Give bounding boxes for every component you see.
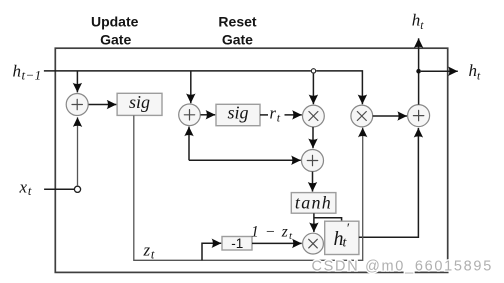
wire x_t up to U1 [77, 117, 79, 186]
wire h_{t-1} horizontal [44, 70, 311, 72]
wire sig2 to r_t [260, 114, 268, 116]
multiplier M3 (x) bottom [303, 233, 324, 254]
svg-text:Gate: Gate [222, 32, 253, 48]
node junction dot on output [416, 69, 421, 74]
svg-text:zt: zt [143, 240, 156, 261]
sigmoid box SIG1 [117, 92, 162, 116]
wire tanh down into M3 [313, 213, 315, 232]
svg-text:tanh: tanh [295, 193, 332, 213]
inverter box -1 [222, 236, 252, 251]
wire U4 output up to top h_t [418, 38, 420, 104]
svg-text:-1: -1 [231, 236, 243, 251]
adder U1 (+) update gate [66, 94, 88, 116]
adder U2 (+) reset gate [179, 104, 201, 126]
wire tanh branch to h't box [314, 218, 342, 221]
svg-text:ht: ht [412, 11, 425, 32]
label Reset Gate [218, 14, 256, 48]
adder U4 (+) output [408, 105, 430, 127]
wire junction right to h_t output [421, 70, 458, 72]
wire U2 to sig2 [201, 114, 216, 116]
wire h't output to adder U4 [359, 128, 419, 237]
svg-text:Gate: Gate [100, 32, 131, 48]
sigmoid box SIG2 [216, 103, 260, 126]
candidate state box h't [325, 221, 359, 254]
wire z_t from sig1 down across and up into M2 [134, 116, 363, 261]
wire x feed corner up into U2 [188, 127, 190, 161]
wire U1 to sig1 [89, 104, 117, 106]
wire h line continues right and down into M2 [316, 71, 362, 104]
multiplier M1 (x) [303, 105, 325, 127]
activation box TANH [291, 193, 336, 214]
node x_t junction (open circle) [74, 186, 80, 192]
svg-text:sig: sig [129, 92, 150, 112]
wire branch down to reset adder [190, 71, 192, 103]
svg-text:sig: sig [227, 103, 248, 123]
wire x_t input [44, 188, 74, 190]
adder U3 (+) candidate [302, 150, 324, 172]
wire U3 down to tanh [312, 172, 314, 192]
wire -1 to M3 [252, 242, 302, 244]
wire branch down to update adder [76, 71, 78, 93]
wire r_t to multiplier M1 [285, 114, 302, 116]
node junction on h line (open circle) [311, 69, 315, 73]
wire M2 to U4 [373, 115, 407, 117]
svg-text:CSDN @m0_66015895: CSDN @m0_66015895 [312, 259, 493, 275]
svg-text:ht−1: ht−1 [13, 61, 42, 82]
label Update Gate [91, 14, 139, 48]
wire M1 down to adder U3 [312, 127, 314, 148]
svg-text:xt: xt [19, 177, 33, 198]
svg-text:Reset: Reset [218, 14, 256, 30]
wire x feed corner right into U3 [189, 159, 301, 161]
svg-text:1 − zt: 1 − zt [251, 223, 293, 242]
cell boundary box [55, 48, 447, 272]
svg-text:rt: rt [270, 104, 281, 125]
svg-text:ht: ht [469, 61, 482, 82]
multiplier M2 (x) [351, 105, 373, 127]
wire junction down into M1 [312, 74, 314, 105]
wire branch up to -1 box [202, 243, 221, 260]
svg-text:Update: Update [91, 14, 139, 30]
